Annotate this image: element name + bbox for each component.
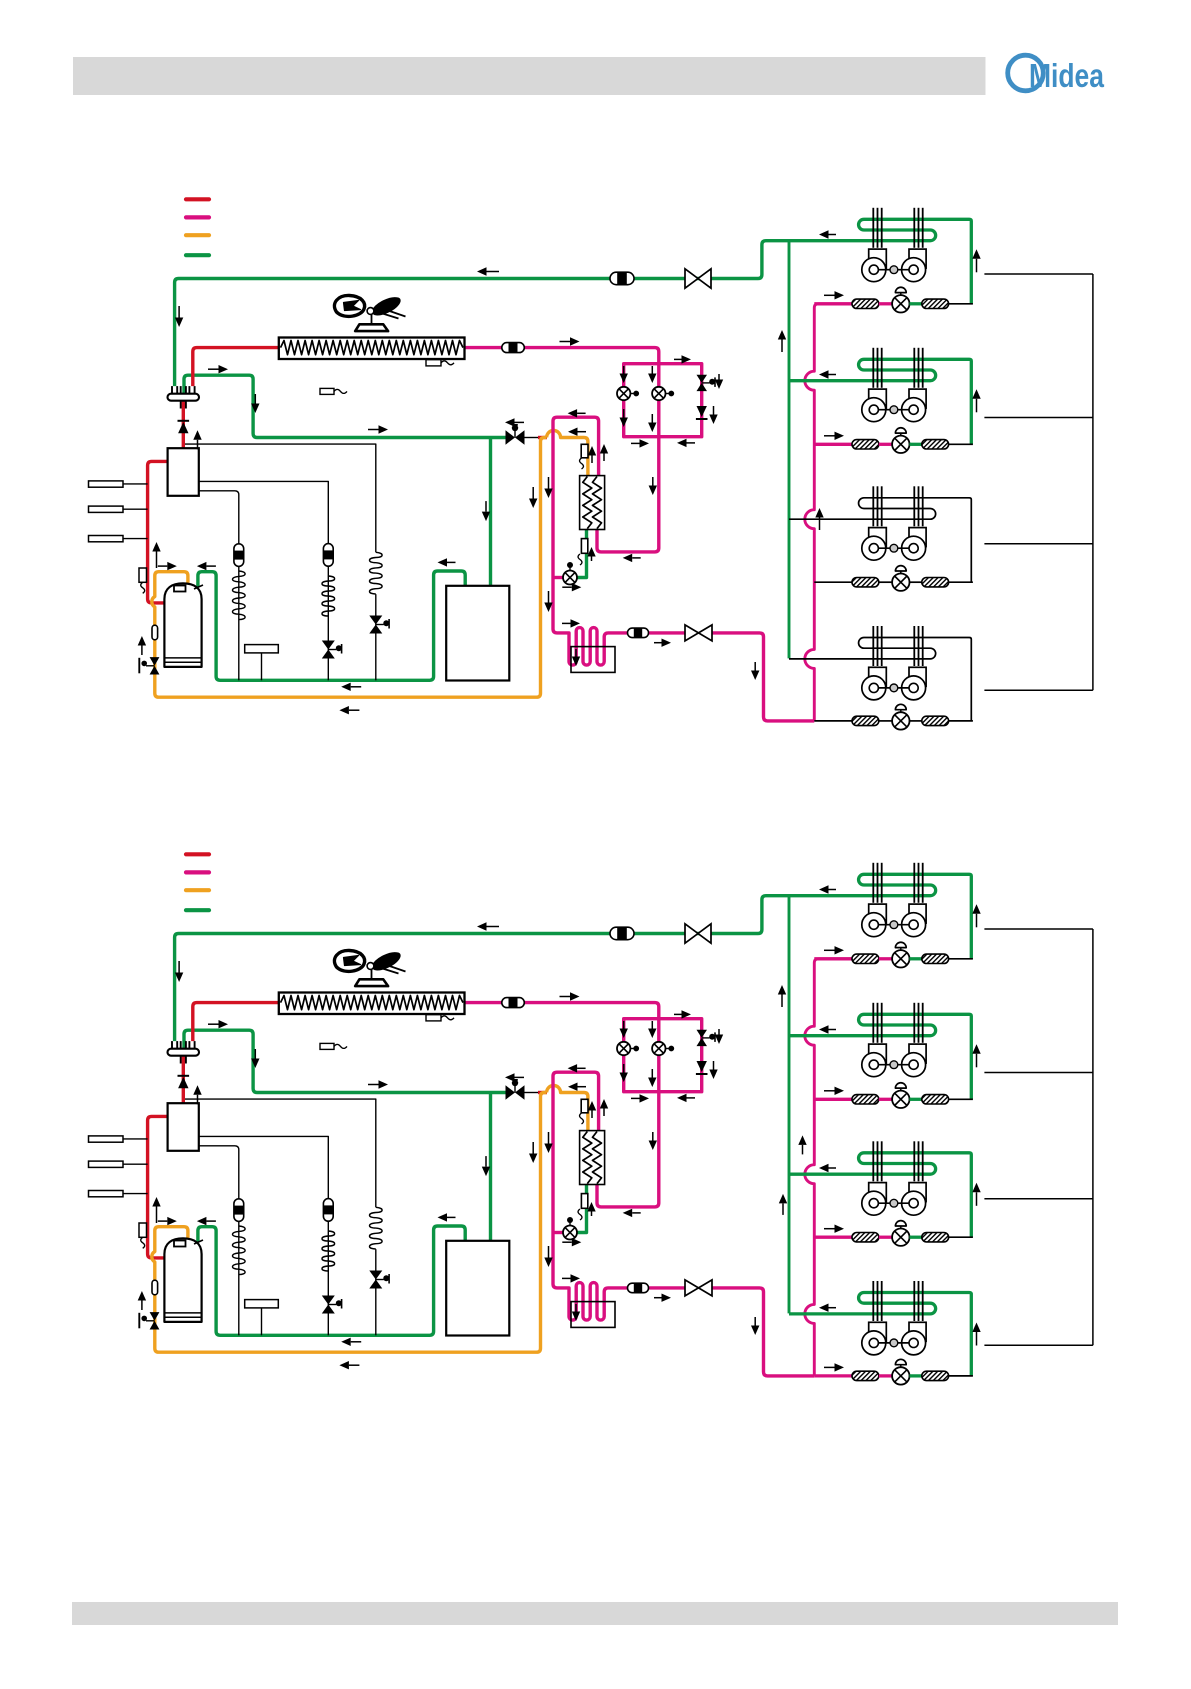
filter (852, 716, 879, 725)
EXV unit 2 (892, 1091, 909, 1108)
compressor (164, 1238, 201, 1322)
flow arrow (718, 374, 720, 380)
flow arrow (548, 1246, 550, 1258)
wire: discharge gas line HX to four-way valve (red) (193, 348, 281, 387)
outdoor heat exchanger coil (279, 338, 465, 360)
indoor unit 1 fan motor (878, 924, 909, 926)
check valve (697, 1061, 707, 1072)
indoor unit 4 fan 2 (909, 1322, 926, 1341)
indoor unit 1 fan 2 (909, 249, 926, 268)
flow arrow (829, 1307, 837, 1309)
capillary coil branch 3 (370, 552, 383, 594)
indoor unit 4 boundary (984, 689, 1093, 691)
flow arrow (green riser) (781, 340, 783, 353)
wire: red stub at liquid-line junction (538, 436, 547, 439)
indoor unit 3 fan motor (878, 547, 909, 549)
filter (852, 1371, 879, 1380)
flow arrow (575, 649, 577, 657)
EXV unit 1 (892, 295, 909, 312)
wire: receiver outlet / suction return to compressor (198, 1226, 465, 1335)
capillary coil branch 2 (322, 576, 335, 616)
sight glass (610, 927, 634, 940)
filter (852, 299, 879, 308)
wire: liquid line to indoor riser (magenta) (712, 1288, 814, 1376)
flow arrow (654, 1297, 662, 1299)
wire: muffler to compressor discharge (red) (148, 461, 168, 603)
indoor unit 2 boundary (984, 417, 1093, 419)
stop valve (gas pipe) (524, 1092, 538, 1094)
indoor unit 1 fins (872, 863, 874, 903)
flow arrow (754, 662, 756, 671)
wire (949, 581, 973, 583)
filter (922, 1095, 949, 1104)
flow arrow (829, 1167, 837, 1169)
legend: high pressure liquid line (magenta) (186, 215, 209, 219)
flow arrow (485, 501, 487, 512)
plate subcooler (580, 476, 605, 530)
wire: subcooler EXV outlet (green) (577, 530, 587, 578)
pressure sensor (89, 1191, 124, 1197)
wire: receiver outlet / suction return to compressor (198, 571, 465, 680)
EXV unit 4 (892, 712, 909, 729)
wire: oil branch 3 (hot gas bypass) (185, 1099, 376, 1207)
service valve (685, 924, 698, 943)
wire (949, 303, 973, 305)
four-way valve (168, 1049, 200, 1056)
wire (949, 1236, 973, 1238)
flow arrow (623, 1064, 625, 1073)
indoor unit 2 fan 2 (909, 389, 926, 408)
flow arrow (652, 1132, 654, 1141)
check valve (178, 1075, 190, 1077)
wire: branch down to receiver (489, 438, 492, 586)
pressure switch 1 (89, 1136, 124, 1142)
indoor unit 1 liquid feed (814, 302, 852, 305)
stop valve (506, 430, 516, 444)
indoor unit 1 liquid feed (814, 957, 852, 960)
flow arrow (158, 565, 168, 567)
wire: liquid line HX outlet to EXV bridge (magenta) (463, 1003, 659, 1207)
indoor unit 1 boundary (984, 928, 1093, 930)
wire: main suction gas line to indoor units (175, 896, 790, 1041)
wire (879, 443, 892, 446)
flow arrow (631, 442, 640, 444)
sub heat exchanger (571, 1302, 615, 1328)
flow arrow (577, 1067, 586, 1069)
flow arrow (206, 565, 216, 567)
wire (910, 1098, 922, 1101)
flow arrow (578, 1086, 587, 1088)
wire: subcooler EXV outlet (green) (577, 1185, 587, 1233)
flow arrow (548, 477, 550, 489)
wire: green riser to indoor units (788, 896, 791, 1314)
filter drier (323, 1199, 333, 1222)
wire: main EXV inlet stub (magenta) (553, 1231, 563, 1234)
stop valve (506, 1085, 516, 1099)
flow arrow (254, 1049, 256, 1059)
wire (879, 1098, 892, 1101)
flow arrow (976, 1054, 978, 1068)
indoor unit 2 fan motor (878, 409, 909, 411)
wire: oil branch 2 (199, 1136, 328, 1199)
indoor unit 3 fins (872, 1141, 874, 1181)
wire (910, 957, 922, 960)
wire (238, 1221, 240, 1335)
flow arrow (976, 914, 978, 928)
flow arrow (603, 1109, 605, 1117)
sub heat exchanger (571, 647, 615, 673)
ambient temp sensor (320, 388, 334, 394)
flow arrow (178, 306, 180, 318)
flow arrow (548, 1132, 550, 1144)
filter (922, 716, 949, 725)
flow arrow (824, 1090, 835, 1092)
indoor unit 3 boundary (984, 543, 1093, 545)
flow arrow (197, 1095, 199, 1105)
pressure switch 2 (89, 506, 124, 512)
four-way valve (168, 394, 200, 401)
indoor unit 3 fan 2 (909, 528, 926, 547)
indoor unit 2 boundary (984, 1072, 1093, 1074)
service valve (685, 269, 698, 288)
gas-liquid separator (receiver) (446, 1241, 509, 1336)
flow arrow (713, 406, 715, 415)
flow arrow (591, 1111, 593, 1119)
flow arrow (562, 1241, 572, 1243)
flow arrow (829, 889, 837, 891)
flow arrow (976, 1332, 978, 1346)
flow arrow (349, 709, 360, 711)
wire: four-way valve to receiver (suction side) (184, 375, 506, 437)
filter (852, 1095, 879, 1104)
svg-text:Midea: Midea (1029, 57, 1105, 94)
outdoor heat exchanger coil (279, 993, 465, 1015)
flow arrow (208, 368, 219, 370)
wire (910, 720, 922, 722)
EXV unit 3 (892, 1229, 909, 1246)
filter (922, 954, 949, 963)
compressor (164, 583, 201, 667)
wire (910, 1374, 922, 1377)
filter (922, 440, 949, 449)
gas-liquid separator (receiver) (446, 586, 509, 681)
flow arrow (156, 1207, 158, 1224)
indoor unit 4 heat exchanger coil (789, 638, 971, 721)
wire (375, 1249, 377, 1335)
indoor unit 4 fan 1 (869, 1322, 887, 1341)
flow arrow (208, 1023, 219, 1025)
indoor unit 1 fan 2 (909, 904, 926, 923)
filter (922, 299, 949, 308)
service valve (685, 625, 699, 641)
ambient temp sensor (320, 1043, 334, 1049)
pressure switch 2 (89, 1161, 124, 1167)
wire: subcooler to main EXV loop (magenta) (553, 417, 685, 665)
wire (949, 1375, 973, 1377)
outdoor propeller fan (334, 950, 364, 971)
wire (910, 581, 922, 583)
indoor unit 4 heat exchanger coil (789, 1293, 971, 1376)
indoor unit 2 fins (872, 348, 874, 388)
wire: EXV bridge rectangle (magenta) (624, 1019, 702, 1092)
flow arrow (674, 358, 682, 360)
flow arrow (green riser) (782, 1203, 784, 1215)
discharge temp sensor (139, 568, 147, 582)
flow arrow (liquid) (560, 341, 571, 343)
oil level switch (245, 1300, 279, 1308)
flow arrow (suction main) (487, 926, 500, 928)
indoor unit 3 fan 1 (869, 528, 887, 547)
wire: discharge gas line HX to four-way valve (red) (193, 1003, 281, 1042)
flow arrow (976, 1192, 978, 1206)
flow arrow (632, 557, 641, 559)
indoor unit 1 fan 1 (869, 249, 887, 268)
filter (852, 440, 879, 449)
flow arrow (515, 421, 525, 423)
wire (238, 566, 240, 680)
EXV A (617, 1042, 630, 1055)
indoor unit 4 fins (872, 1281, 874, 1321)
wire: main EXV inlet stub (magenta) (553, 576, 563, 579)
flow arrow (575, 1304, 577, 1312)
flow arrow (651, 414, 653, 423)
strainer after main EXV (581, 539, 587, 554)
pressure switch 1 (89, 481, 124, 487)
filter drier (234, 1199, 244, 1222)
defrost temp sensor (426, 360, 441, 366)
indoor unit 3 liquid feed (814, 1236, 852, 1239)
indoor unit 2 fan 2 (909, 1044, 926, 1063)
EXV unit 4 (892, 1367, 909, 1384)
flow arrow (713, 1061, 715, 1070)
wire (949, 1098, 973, 1100)
flow arrow (976, 399, 978, 413)
flow arrow (141, 1301, 143, 1311)
flow arrow (577, 412, 586, 414)
indoor unit 2 liquid feed (814, 443, 852, 446)
flow arrow (suction main) (487, 271, 500, 273)
EXV B (652, 1042, 665, 1055)
wire: oil line over magenta riser to subcooler (orange, pipe hop) (547, 431, 588, 476)
indoor unit 4 fan 2 (909, 667, 926, 686)
flow arrow (603, 454, 605, 462)
wire: green riser to indoor units (788, 241, 791, 659)
flow arrow (976, 259, 978, 273)
flow arrow (351, 686, 362, 688)
indoor unit 1 fins (872, 208, 874, 248)
flow arrow (631, 1097, 640, 1099)
indoor unit 3 fan motor (878, 1202, 909, 1204)
wire: red stub at liquid-line junction (538, 1091, 547, 1094)
wire (327, 566, 329, 681)
strainer (152, 1280, 158, 1295)
flow arrow (447, 561, 456, 563)
filter (852, 954, 879, 963)
indoor unit 2 fan 1 (869, 389, 887, 408)
EXV A (617, 387, 630, 400)
flow arrow (green riser) (781, 995, 783, 1008)
flow arrow (158, 1220, 168, 1222)
sight glass (610, 272, 634, 285)
wire: oil branch 2 (199, 481, 328, 544)
indoor unit 1 boundary (984, 273, 1093, 275)
flow arrow (141, 646, 143, 656)
indoor unit 3 heat exchanger coil (789, 498, 971, 582)
wire (879, 302, 892, 305)
flow arrow (829, 234, 837, 236)
main EXV (563, 1226, 577, 1240)
flow arrow (652, 477, 654, 486)
flow arrow (206, 1220, 216, 1222)
wire: branch down to receiver (489, 1093, 492, 1241)
legend: suction gas line (green) (186, 908, 209, 912)
indoor unit 2 fins (872, 1003, 874, 1043)
strainer on oil injection (581, 444, 588, 458)
EXV unit 3 (892, 574, 909, 591)
legend: oil line (orange) (186, 233, 209, 237)
wire (949, 720, 973, 722)
wire (879, 1236, 892, 1239)
wire (879, 957, 892, 960)
flow arrow (591, 1212, 593, 1217)
wire (910, 1236, 922, 1239)
flow arrow (824, 949, 835, 951)
wire: compressor oil return loop (orange) (152, 438, 547, 698)
defrost temp sensor (426, 1015, 441, 1021)
indoor unit 4 fan motor (878, 1342, 909, 1344)
flow arrow (591, 557, 593, 562)
indoor unit 1 heat exchanger coil (789, 874, 971, 959)
filter drier (234, 544, 244, 567)
oil level switch (245, 645, 279, 653)
filter (922, 1233, 949, 1242)
strainer on oil injection (581, 1099, 588, 1113)
flow arrow (485, 1156, 487, 1167)
wire: oil branch 1 (199, 1146, 239, 1199)
indoor unit 4 liquid feed (814, 1374, 852, 1377)
indoor unit 1 heat exchanger coil (789, 219, 971, 303)
legend: suction gas line (green) (186, 253, 209, 257)
capillary coil branch 2 (322, 1231, 335, 1271)
valve (150, 1312, 160, 1321)
flow arrow (197, 440, 199, 450)
flow arrow (562, 1277, 571, 1279)
footer bar (72, 1602, 1118, 1625)
indoor unit 3 fan 1 (869, 1183, 887, 1202)
flow arrow (548, 591, 550, 603)
wire (949, 443, 973, 445)
wire: muffler to compressor discharge (red) (148, 1116, 168, 1258)
flow arrow (651, 366, 653, 374)
check valve (178, 420, 190, 422)
stop valve (gas pipe) (524, 437, 538, 439)
indoor unit 4 boundary (984, 1344, 1093, 1346)
flow arrow (829, 374, 837, 376)
solenoid valve (322, 641, 335, 650)
flow arrow (447, 1216, 456, 1218)
wire (949, 958, 973, 960)
flow arrow (368, 1084, 379, 1086)
flow arrow (magenta riser) (802, 1145, 804, 1155)
indoor unit 3 fan 2 (909, 1183, 926, 1202)
check valve (697, 406, 707, 417)
flow arrow (liquid) (560, 996, 571, 998)
wire (879, 1374, 892, 1377)
wire (910, 443, 922, 446)
indoor unit 4 fan 1 (869, 667, 887, 686)
flow arrow (562, 622, 571, 624)
wire: oil line over magenta riser to subcooler (orange, pipe hop) (547, 1086, 588, 1131)
capillary coil branch 1 (233, 1226, 246, 1275)
indoor unit 3 liquid feed (814, 581, 852, 583)
wire: oil branch 1 (199, 491, 239, 544)
flow arrow (156, 552, 158, 569)
outdoor propeller fan (334, 295, 364, 316)
flow arrow (651, 1021, 653, 1029)
indoor unit 3 heat exchanger coil (789, 1153, 971, 1237)
flow arrow (824, 1366, 835, 1368)
valve (150, 657, 160, 666)
legend: high pressure liquid line (magenta) (186, 870, 209, 874)
flow arrow (578, 431, 587, 433)
flow arrow (674, 1013, 682, 1015)
wire: liquid line to indoor riser (magenta) (712, 633, 814, 721)
wire: liquid line HX outlet to EXV bridge (magenta) (463, 348, 659, 552)
flow arrow (654, 642, 662, 644)
flow arrow (532, 1142, 534, 1154)
plate subcooler (580, 1131, 605, 1185)
flow arrow (824, 294, 835, 296)
indoor unit 3 fins (872, 486, 874, 526)
solenoid valve (697, 375, 708, 383)
filter (852, 1233, 879, 1242)
wire: magenta riser with pipe hops (805, 304, 852, 721)
wire: compressor oil return loop (orange) (152, 1093, 547, 1353)
indoor unit 4 fan motor (878, 687, 909, 689)
strainer (152, 625, 158, 640)
filter (922, 578, 949, 587)
indoor units boundary bus (1092, 274, 1094, 690)
indoor unit 1 fan motor (878, 269, 909, 271)
wire (375, 594, 377, 680)
service valve (685, 1280, 699, 1296)
solenoid valve (369, 616, 382, 625)
flow arrow (687, 1097, 696, 1099)
main EXV (563, 571, 577, 585)
flow arrow (591, 456, 593, 464)
legend: discharge gas line (red) (186, 852, 209, 856)
flow arrow (178, 961, 180, 973)
wire (879, 581, 892, 583)
flow arrow (687, 442, 696, 444)
indoor units boundary bus (1092, 929, 1094, 1345)
indoor unit 3 boundary (984, 1198, 1093, 1200)
flow arrow (254, 394, 256, 404)
wire: EXV bridge rectangle (magenta) (624, 364, 702, 437)
indoor unit 2 fan 1 (869, 1044, 887, 1063)
header bar (73, 57, 986, 95)
wire: oil branch 3 (hot gas bypass) (185, 444, 376, 552)
wire: four-way valve to receiver (suction side) (184, 1030, 506, 1092)
sight glass (502, 343, 525, 353)
solenoid valve (322, 1296, 335, 1305)
sight glass (628, 628, 649, 638)
EXV B (652, 387, 665, 400)
indoor unit 1 fan 1 (869, 904, 887, 923)
pressure sensor (89, 536, 124, 542)
EXV unit 2 (892, 436, 909, 453)
indoor unit 2 heat exchanger coil (789, 1014, 971, 1099)
